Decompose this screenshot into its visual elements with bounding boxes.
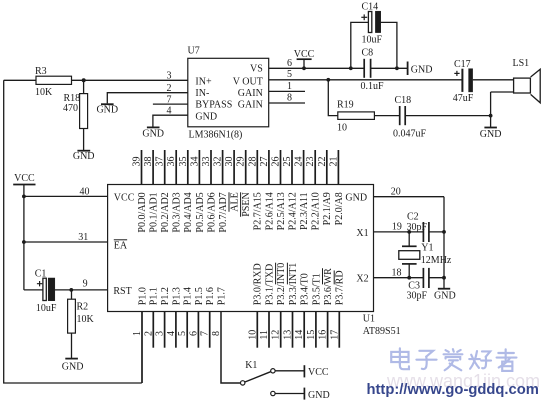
svg-text:P3.4/T0: P3.4/T0 [300,273,311,305]
wire: U7 pin2 to ground [107,93,188,104]
ground at right rail [438,288,450,290]
svg-text:C2: C2 [407,211,419,222]
svg-text:VCC: VCC [114,193,135,204]
pin label P3.3/INT1 [288,263,299,306]
svg-text:23: 23 [305,157,316,167]
svg-text:X1: X1 [356,228,368,239]
node: C14 left on VS line [349,66,353,70]
wire: VCC rail down left side [23,185,25,290]
wire: U1 pin 13 stub [292,312,294,348]
switch K1 lever [245,372,271,382]
wire: U1 pin 29 stub [245,150,247,185]
wire: U1 pin 33 stub [210,150,212,185]
svg-text:27: 27 [259,157,270,167]
wire: U1 pin 27 stub [268,150,270,185]
svg-text:25: 25 [282,157,293,167]
wire: pin 18 X2 line [374,277,445,279]
svg-text:21: 21 [328,157,339,167]
svg-text:GND: GND [434,290,456,301]
node: C2 to rail [442,230,446,234]
svg-text:30pF: 30pF [407,290,428,301]
wire: U1 pin 23 stub [314,150,316,185]
wire: C1 to RST pin 9 [55,289,108,291]
IC U1 AT89S51 body [108,185,374,312]
wire: R3 left lead [4,79,36,81]
wire: branch down to R19 [328,80,338,116]
svg-text:R2: R2 [77,301,89,312]
wire: U1 pin 15 stub [315,312,317,348]
svg-text:P0.2/AD2: P0.2/AD2 [160,192,171,232]
svg-text:32: 32 [213,157,224,167]
pin number 10 [247,330,258,340]
pin number 16 [318,330,329,340]
svg-text:P1.7: P1.7 [216,287,227,305]
wire: U7 pin5 V OUT line [269,79,514,81]
svg-text:P0.4/AD4: P0.4/AD4 [183,192,194,232]
ground below R2 [65,358,78,360]
svg-text:EA: EA [114,240,128,251]
svg-text:17: 17 [329,330,340,340]
node: speaker return junction [489,114,493,118]
svg-text:P3.3/INT1: P3.3/INT1 [288,263,299,306]
pin number 7 [200,331,211,336]
pin number 12 [271,330,282,340]
capacitor C1 (electrolytic) [43,278,46,300]
pin number 24 [294,157,305,167]
ground at U7 pin2 [101,103,114,105]
svg-text:30pF: 30pF [407,222,428,233]
svg-text:P1.6: P1.6 [205,287,216,305]
pin label ALE [230,192,241,211]
svg-text:P0.1/AD1: P0.1/AD1 [149,192,160,232]
pin label P0.4/AD4 [183,192,194,232]
pin number 17 [329,330,340,340]
capacitor C8 [364,59,370,78]
switch K1 upper throw contact [271,369,275,373]
wire: U1 pin 32 stub [222,150,224,185]
pin number 32 [213,157,224,167]
wire: U1 pin 17 stub [338,312,340,348]
node: V OUT branch to R19 [326,78,330,82]
svg-text:19: 19 [392,221,402,232]
watermark: hanzi ZHE [497,349,517,371]
resistor R2 [68,299,76,333]
resistor R3 [36,76,72,84]
pin label P3.1/TXD [264,264,275,305]
speaker LS1 [491,69,541,103]
svg-text:P0.5/AD5: P0.5/AD5 [195,192,206,232]
wire: K1 to VCC [275,370,304,372]
svg-text:33: 33 [201,157,212,167]
svg-text:P0.0/AD0: P0.0/AD0 [137,192,148,232]
svg-text:20: 20 [391,186,401,197]
wire: U1 pin 34 stub [198,150,200,185]
capacitor C2 [423,222,429,242]
watermark: hanzi AI [444,349,463,370]
pin number 37 [155,157,166,167]
pin label P0.2/AD2 [160,192,171,232]
svg-text:P3.1/TXD: P3.1/TXD [264,264,275,305]
svg-text:12: 12 [271,330,282,340]
wire: pin 20 GND line [374,196,445,198]
svg-text:Y1: Y1 [421,242,433,253]
pin number 38 [143,157,154,167]
svg-text:40: 40 [80,186,90,197]
svg-text:16: 16 [318,330,329,340]
pin label P2.5/A13 [276,192,287,230]
pin label P1.4 [183,287,194,305]
wire: U1 pin 11 stub [268,312,270,348]
power VCC at U1 pin 40 [13,184,35,186]
svg-text:K1: K1 [245,360,257,371]
svg-text:P2.4/A12: P2.4/A12 [287,192,298,230]
wire: R3 right lead to U7 pin3 [72,79,188,81]
svg-text:PSEN: PSEN [241,192,252,216]
wire: U1 pin 7 stub [209,312,211,348]
wire: U1 pin 14 stub [303,312,305,348]
svg-text:P3.7/RD: P3.7/RD [335,270,346,305]
wire: U7 pin4 to ground [153,115,188,127]
wire: U1 pin 28 stub [256,150,258,185]
wire: U1 pin 12 stub [280,312,282,348]
svg-text:31: 31 [78,232,88,243]
resistor R18 [80,80,88,150]
ground below speaker [484,127,497,129]
svg-text:P0.6/AD6: P0.6/AD6 [206,192,217,232]
pin label P3.7/RD [335,270,346,305]
ground at U7 pin4 [147,126,160,128]
wire: U1 pin 8 stub [221,312,240,384]
svg-text:29: 29 [236,157,247,167]
pin label P0.3/AD3 [172,192,183,232]
svg-text:35: 35 [178,157,189,167]
wire: pin 40 line [24,195,108,197]
wire: U1 pin 24 stub [303,150,305,185]
pin label P1.5 [194,287,205,305]
pin number 27 [259,157,270,167]
svg-text:AT89S51: AT89S51 [363,326,401,337]
pin number 39 [132,157,143,167]
pin label P1.1 [149,287,160,305]
wire: R19 to C18 [374,115,399,117]
watermark: hanzi DIAN [391,348,409,369]
wire: U1 pin 25 stub [291,150,293,185]
pin number 13 [283,330,294,340]
resistor R19 [338,112,375,120]
watermark: hanzi HAO [469,351,491,369]
wire: U1 pin 6 stub [197,312,199,348]
pin number 3 [155,331,166,336]
pin label P0.0/AD0 [137,192,148,232]
wire: U1 pin 21 stub [337,150,339,185]
wire: U1 pin 37 stub [164,150,166,185]
svg-text:P2.1/A9: P2.1/A9 [322,192,333,225]
pin number 11 [259,330,270,340]
pin number 33 [201,157,212,167]
svg-text:P2.6/A14: P2.6/A14 [264,192,275,230]
svg-text:ALE: ALE [230,192,241,211]
svg-text:P2.5/A13: P2.5/A13 [276,192,287,230]
pin label P1.3 [171,287,182,305]
wire: U1 pin 38 stub [152,150,154,185]
pin number 26 [271,157,282,167]
svg-text:10K: 10K [77,314,95,325]
node: X2 junction [407,276,411,280]
svg-text:P3.6/WR: P3.6/WR [323,268,334,305]
wire: U1 pin 10 stub [256,312,258,348]
wire: U1 pin 5 stub [186,312,188,348]
wire: pin 31 EA line [24,241,108,243]
svg-text:http://www.go-gddq.com: http://www.go-gddq.com [367,382,539,398]
svg-text:VCC: VCC [308,367,329,378]
svg-text:GND: GND [345,192,367,203]
pin number 15 [306,330,317,340]
pin label P3.2/INT0 [276,263,287,306]
svg-text:15: 15 [306,330,317,340]
wire: right ground rail [443,197,445,289]
pin number 2 [143,331,154,336]
pin label P3.6/WR [323,268,334,305]
svg-text:26: 26 [271,157,282,167]
svg-text:28: 28 [247,157,258,167]
node: C14 right on VS line [395,66,399,70]
svg-text:10: 10 [247,330,258,340]
wire: U1 pin 26 stub [280,150,282,185]
wire: U1 pin 36 stub [175,150,177,185]
pin label P1.7 [216,287,227,305]
svg-text:P1.4: P1.4 [183,287,194,305]
pin number 1 [132,331,143,336]
svg-text:5: 5 [177,331,188,336]
wire: left feedback rail from R3 down and along bottom to pin1 [4,80,142,383]
wire: U1 pin 16 stub [327,312,329,348]
svg-text:RST: RST [113,286,131,297]
svg-text:P1.3: P1.3 [171,287,182,305]
wire: pin 19 X1 line [374,231,445,233]
wire: lower contact to GND [275,393,304,395]
svg-text:12MHz: 12MHz [421,255,452,266]
svg-text:1: 1 [132,331,143,336]
svg-text:18: 18 [392,267,402,278]
svg-text:2: 2 [143,331,154,336]
svg-text:P3.0/RXD: P3.0/RXD [253,263,264,305]
watermark: hanzi ZI [416,351,436,369]
wire: U1 pin 3 stub [164,312,166,348]
svg-text:37: 37 [155,157,166,167]
svg-text:38: 38 [143,157,154,167]
svg-text:13: 13 [283,330,294,340]
pin number 21 [328,157,339,167]
wire: U7 pin6 VS line [269,67,408,69]
pin number 6 [188,331,199,336]
pin label P1.0 [137,287,148,305]
node: junction R3/R18/pin3 [82,78,86,82]
node: X1 junction [407,230,411,234]
pin number 29 [236,157,247,167]
pin label P1.6 [205,287,216,305]
pin label P0.6/AD6 [206,192,217,232]
wire: U7 pin8 stub [269,102,305,104]
svg-text:GND: GND [62,362,84,373]
svg-text:9: 9 [83,279,88,290]
ground below R18 [77,150,90,152]
pin number 35 [178,157,189,167]
svg-text:GND: GND [308,390,330,401]
switch K1 lower throw contact [271,391,275,395]
pin number 22 [317,157,328,167]
pin label P1.2 [160,287,171,305]
capacitor C18 [400,106,406,125]
pin label P0.5/AD5 [195,192,206,232]
svg-text:P2.2/A10: P2.2/A10 [311,192,322,230]
node: C3 to rail [442,276,446,280]
svg-text:39: 39 [132,157,143,167]
svg-text:P1.0: P1.0 [137,287,148,305]
capacitor C14 (electrolytic) [361,11,380,32]
pin number 28 [247,157,258,167]
pin number 14 [294,330,305,340]
wire: U7 pin1 stub [269,90,305,92]
capacitor C3 [423,268,429,288]
wire: U7 pin7 stub [153,103,188,105]
svg-text:X2: X2 [356,274,368,285]
svg-text:P1.1: P1.1 [149,287,160,305]
svg-text:P1.5: P1.5 [194,287,205,305]
pin label PSEN [241,192,252,216]
pin number 4 [166,331,177,336]
wire: U1 pin 4 stub [175,312,177,348]
pin label P2.2/A10 [311,192,322,230]
svg-text:34: 34 [189,157,200,167]
svg-text:P0.3/AD3: P0.3/AD3 [172,192,183,232]
wire: C18 to speaker ground node [405,115,490,117]
svg-text:36: 36 [166,157,177,167]
pin number 25 [282,157,293,167]
pin label P3.5/T1 [311,273,322,305]
wire: U1 pin 2 stub [152,312,154,348]
pin number 23 [305,157,316,167]
power VCC tap at K1 [303,365,305,377]
power VCC at U7 pin6 [297,59,312,68]
svg-text:11: 11 [259,330,270,340]
switch K1 pole contact [241,381,245,385]
wire: speaker bottom lead down [490,92,492,127]
svg-text:24: 24 [294,157,305,167]
wire: C14 branch loop [351,22,397,68]
svg-text:P0.7/AD7: P0.7/AD7 [218,192,229,232]
wire: U1 pin 22 stub [326,150,328,185]
pin label P2.1/A9 [322,192,333,225]
wire: U1 pin 30 stub [233,150,235,185]
svg-text:P2.0/A8: P2.0/A8 [334,192,345,225]
wire: rail corner into C1 [24,289,43,291]
svg-text:22: 22 [317,157,328,167]
svg-text:7: 7 [200,331,211,336]
pin number 36 [166,157,177,167]
wire: U1 pin 1 stub [141,312,143,384]
wire: U1 pin 39 stub [141,150,143,185]
pin label P2.7/A15 [253,192,264,230]
svg-text:4: 4 [166,331,177,336]
pin label P3.4/T0 [300,273,311,305]
pin label P2.6/A14 [264,192,275,230]
pin number 34 [189,157,200,167]
svg-text:3: 3 [155,331,166,336]
wire: U1 pin 35 stub [187,150,189,185]
svg-text:6: 6 [188,331,199,336]
capacitor C17 (electrolytic) [454,69,472,92]
pin label P2.4/A12 [287,192,298,230]
ground tap at K1 [303,388,305,400]
pin label P2.3/A11 [299,192,310,230]
svg-text:U1: U1 [363,314,375,325]
svg-text:8: 8 [211,331,222,336]
op-amp U7 LM386 body [188,58,269,127]
svg-text:P2.3/A11: P2.3/A11 [299,192,310,230]
svg-text:P3.5/T1: P3.5/T1 [311,273,322,305]
pin number 8 [211,331,222,336]
pin label P0.7/AD7 [218,192,229,232]
svg-text:P1.2: P1.2 [160,287,171,305]
svg-text:P2.7/A15: P2.7/A15 [253,192,264,230]
ground tap right of C8 [407,62,409,76]
svg-text:10uF: 10uF [36,303,57,314]
crystal Y1 [399,232,420,278]
svg-text:C1: C1 [35,268,47,279]
pin label P2.0/A8 [334,192,345,225]
svg-text:30: 30 [224,157,235,167]
pin label P0.1/AD1 [149,192,160,232]
svg-text:14: 14 [294,330,305,340]
svg-text:P3.2/INT0: P3.2/INT0 [276,263,287,306]
svg-text:VCC: VCC [14,173,35,184]
pin number 5 [177,331,188,336]
pin number 30 [224,157,235,167]
pin label P3.0/RXD [253,263,264,305]
